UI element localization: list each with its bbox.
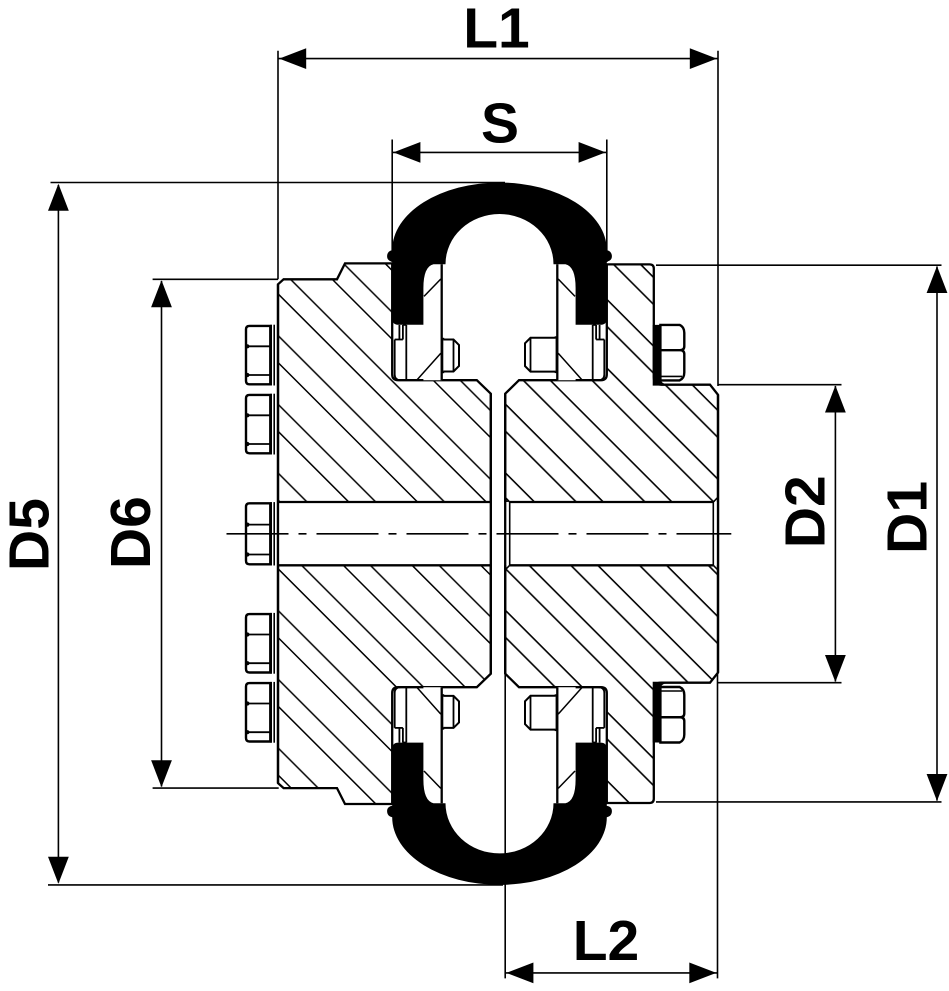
dimension D1 bbox=[656, 265, 947, 802]
dimension D5 bbox=[0, 183, 505, 885]
left flange hex bolt 5 bbox=[245, 682, 274, 743]
clamp bolt bottom-left bbox=[443, 694, 459, 729]
svg-text:L2: L2 bbox=[573, 909, 640, 973]
svg-text:S: S bbox=[481, 92, 519, 156]
section hatch ticks near tongues bbox=[417, 279, 582, 788]
dimension L1 bbox=[278, 0, 718, 386]
clamp tongue top-left bbox=[423, 264, 441, 380]
clamp bolt top-right bbox=[525, 336, 556, 373]
clamp tongue top-right bbox=[557, 264, 575, 380]
left flange hex bolt 2 bbox=[245, 394, 274, 455]
svg-text:D1: D1 bbox=[876, 481, 940, 554]
svg-text:D2: D2 bbox=[774, 475, 838, 548]
clamp bolt bottom-right bbox=[525, 694, 556, 731]
shaft centerline (dash-dot) bbox=[227, 533, 732, 535]
left hub shaft bore bbox=[277, 284, 491, 783]
left flange hex bolt 1 bbox=[245, 325, 274, 386]
dimension L2 bbox=[505, 673, 717, 984]
right flange hex bolt top bbox=[653, 325, 685, 386]
clamp ring section bottom-right bbox=[593, 687, 605, 742]
left flange hex bolt 3 bbox=[245, 502, 274, 565]
clamp ring section bottom-left bbox=[395, 687, 407, 742]
svg-text:D5: D5 bbox=[0, 498, 61, 571]
right hub shaft bore bbox=[504, 394, 719, 674]
left flange hex bolt 4 bbox=[245, 613, 274, 674]
clamp ring section top-left bbox=[395, 325, 407, 380]
left hub body (sectioned, hatched) bbox=[278, 263, 491, 804]
clamp bolt top-left bbox=[443, 338, 459, 373]
clamp tongue bottom-left bbox=[423, 687, 441, 803]
dimension S bbox=[392, 92, 607, 262]
dimension D2 bbox=[718, 385, 846, 683]
svg-text:D6: D6 bbox=[99, 496, 163, 569]
dimension D6 bbox=[99, 279, 279, 788]
clamp tongue bottom-right bbox=[557, 687, 575, 803]
svg-text:L1: L1 bbox=[463, 0, 530, 61]
elastic tire element bottom bbox=[387, 743, 612, 885]
elastic tire element top bbox=[387, 183, 612, 325]
right flange hex bolt bottom bbox=[653, 682, 685, 743]
clamp ring section top-right bbox=[593, 325, 605, 380]
right hub body (sectioned, hatched) bbox=[505, 264, 718, 803]
